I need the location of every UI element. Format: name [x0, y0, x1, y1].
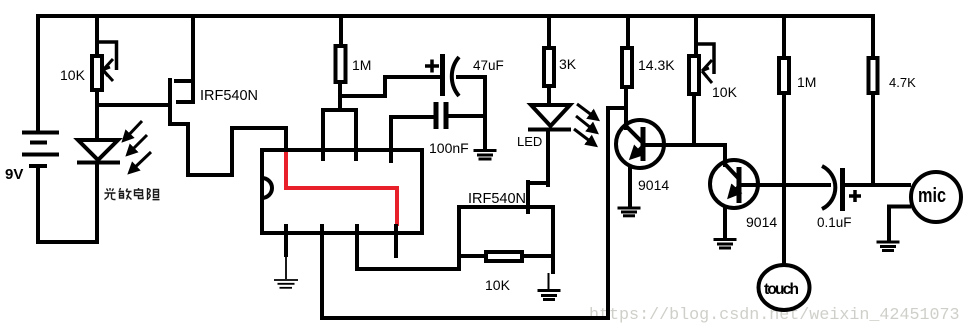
potentiometer R5 wiper arm [696, 44, 714, 74]
svg-text:1M: 1M [352, 57, 371, 73]
ground (thin) at U1 pin [274, 257, 298, 288]
wire pot R1 bottom to photodiode anode [95, 90, 99, 142]
capacitor C3 0.1uF [822, 166, 861, 211]
svg-text:3K: 3K [559, 56, 577, 72]
wire U1 pin to MOSFET U3 gate [357, 207, 527, 269]
MOSFET U2 IRF540N symbol [170, 78, 195, 114]
wire R8 bottom to mic node [871, 93, 875, 187]
svg-text:47uF: 47uF [473, 58, 504, 73]
wire R4 to Q1 base [624, 87, 628, 130]
svg-text:100nF: 100nF [429, 140, 469, 156]
wire R7 left [459, 254, 486, 258]
U1 ground pin to bottom rail [320, 224, 324, 320]
wire pot R1 top from rail [95, 14, 99, 56]
wire R3 to LED anode [547, 86, 551, 107]
wire R6 bottom through node to touch pad [782, 93, 786, 265]
potentiometer R1 wiper arrow [103, 59, 113, 81]
resistor R4 14.3K wire from rail [626, 14, 630, 48]
resistor R4 14.3K body [622, 48, 632, 87]
svg-text:9014: 9014 [638, 177, 669, 193]
wire battery negative loop to photodiode cathode [38, 162, 97, 242]
wire battery positive from rail [36, 14, 40, 131]
resistor R8 4.7K body [869, 58, 878, 93]
wire to 47uF left plate [383, 75, 441, 79]
wire ground rail to Q1 base node [606, 106, 627, 110]
watermark [589, 306, 960, 325]
resistor R3 3K wire from rail [547, 14, 551, 48]
ground G1 [474, 151, 497, 160]
wire top supply rail [37, 14, 875, 18]
potentiometer R1 10K body [92, 56, 102, 90]
resistor R2 1M wire from rail [339, 14, 343, 46]
svg-text:10K: 10K [485, 277, 511, 293]
potentiometer R1 wiper arm [97, 42, 117, 70]
svg-text:mic: mic [918, 185, 946, 207]
resistor R6 1M body [779, 58, 789, 93]
svg-text:10K: 10K [60, 67, 86, 83]
wire U3 source down [551, 205, 555, 274]
wire pot R5 top from rail [694, 14, 698, 56]
resistor R2 1M body [336, 46, 346, 82]
light arrows from LED [574, 104, 597, 145]
wire C2 right to ground node [446, 114, 487, 118]
capacitor C1 47uF [425, 54, 459, 96]
svg-text:9014: 9014 [746, 214, 777, 230]
photodiode D1 (light sensor) [77, 140, 120, 163]
microphone MIC1 [911, 172, 961, 222]
battery 9V [22, 133, 59, 167]
U1 bottom pin to thin ground [284, 224, 288, 257]
svg-text:14.3K: 14.3K [638, 57, 675, 73]
svg-text:9V: 9V [5, 166, 23, 183]
MOSFET U3 IRF540N symbol [527, 180, 555, 214]
wire Q2 output to C3 [741, 183, 831, 187]
U1 top pins bracket [323, 110, 356, 161]
op-amp/timer U1 body [262, 150, 422, 233]
resistor R8 4.7K wire from rail [871, 14, 875, 58]
wire C3 to mic node [845, 183, 911, 187]
svg-text:IRF540N: IRF540N [200, 88, 258, 104]
wire gate node to MOSFET U2 gate [95, 103, 172, 107]
potentiometer R5 10K body [689, 56, 699, 94]
wire C1 right to ground node [456, 77, 485, 150]
resistor R7 10K body (horizontal) [486, 252, 522, 261]
svg-text:1M: 1M [797, 74, 816, 90]
svg-text:LED: LED [517, 134, 542, 149]
svg-text:4.7K: 4.7K [889, 75, 916, 90]
wire U1 pin to 100nF [391, 117, 435, 163]
wire R7 right to U3 source [522, 254, 555, 258]
wire R2 bottom to U1 top pin [338, 75, 385, 112]
wire Q1 emitter to ground [628, 166, 632, 209]
U1 pin stub [394, 224, 398, 258]
ground G3 at Q1 emitter [618, 208, 641, 216]
LED D2 [528, 105, 571, 130]
ground G2 at U3 source [538, 273, 561, 300]
resistor R3 3K body [544, 48, 554, 86]
svg-text:IRF540N: IRF540N [468, 191, 526, 207]
wire mic to ground [889, 207, 911, 242]
wire R5 bottom to collector node [692, 94, 696, 147]
transistor Q1 9014 [616, 120, 664, 168]
touch pad T1 [759, 265, 810, 310]
potentiometer R5 wiper arrow [702, 60, 712, 83]
MOSFET U2 IRF540N drain from rail [191, 14, 195, 104]
resistor R6 1M wire from rail [782, 14, 786, 58]
wire LED cathode to U3 drain [546, 129, 550, 187]
light arrows into D1 [124, 121, 151, 172]
label photoresistor chinese [105, 188, 160, 200]
red jumper inside U1 [286, 152, 397, 226]
svg-text:10K: 10K [712, 84, 738, 100]
transistor Q2 9014 [710, 160, 758, 208]
U1 notch [262, 178, 272, 198]
wire Q2 emitter to ground [723, 206, 727, 240]
svg-text:0.1uF: 0.1uF [817, 215, 852, 230]
svg-text:touch: touch [764, 281, 799, 298]
capacitor C2 100nF [436, 102, 446, 129]
wire Q1 collector to Q2 base [645, 145, 725, 167]
wire U2 source to IC pin (S-route) [170, 112, 286, 175]
ground G5 at mic [877, 242, 900, 251]
ground G4 at Q2 emitter [714, 240, 737, 249]
wire bottom ground rail [320, 108, 626, 318]
